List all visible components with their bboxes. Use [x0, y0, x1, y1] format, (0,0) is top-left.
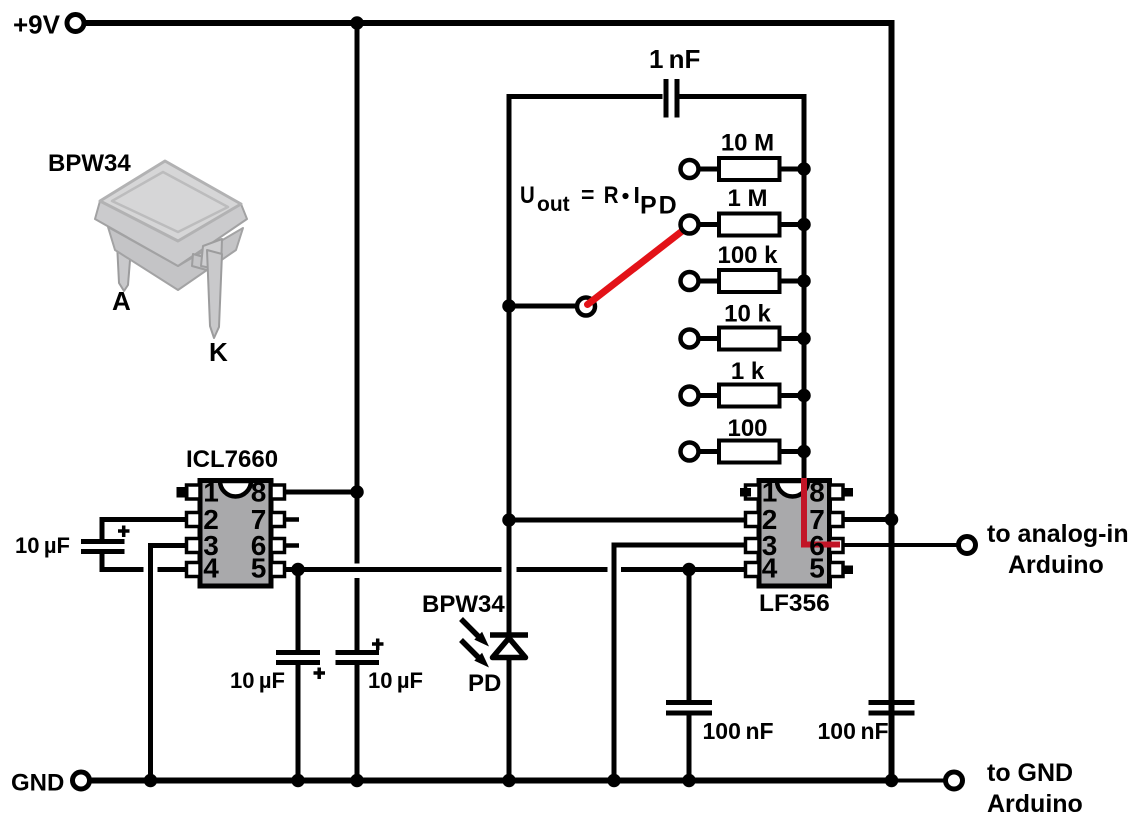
svg-text:K: K — [209, 337, 228, 367]
pin stubs right ICL7660 (8,7,6,5) — [271, 485, 285, 577]
svg-text:1: 1 — [762, 477, 778, 508]
wire: ICL7660 pin2 left then down to 10uF+ plate — [102, 520, 187, 540]
photodiode PD BPW34: cathode bar — [490, 632, 528, 638]
node: GND/100nF #2 and right rail — [885, 774, 899, 788]
wire: ICL7660 pin8 to +9V drop rail — [284, 490, 357, 495]
pin stubs right LF356 (8,7,6,5) — [830, 485, 844, 577]
capacitor 1nF plates — [664, 79, 669, 118]
svg-text:1 k: 1 k — [731, 358, 765, 385]
node: GND/cap1 — [291, 774, 305, 788]
wire: LF356 pin7 to +9V rail — [842, 517, 892, 522]
capacitor 10uF cap1 plates — [276, 650, 320, 655]
wire: pin5 run to LF356 pin4 — [621, 567, 746, 572]
capacitor 100nF #2 plates — [869, 700, 915, 705]
pin 5 NC nub LF356 — [842, 566, 853, 575]
node: rail/10M — [797, 162, 811, 176]
photodiode light arrow 1 — [461, 619, 489, 647]
wire: +9V drop rail to ICL7660 pin8 (upper part, hops over pin5 wire) — [355, 23, 360, 564]
package top face inner ridge — [112, 172, 228, 232]
wire: LF356 pin6 to analog-in terminal — [842, 543, 959, 547]
wire: drop rail resumes below hop, to 10uF cap2 top plate — [355, 578, 360, 651]
svg-text:A: A — [112, 286, 131, 316]
package leg K — [207, 250, 222, 338]
node: ICL7660 pin8 / drop rail — [350, 485, 364, 499]
photodiode triangle — [493, 638, 526, 658]
node: rail/1k — [797, 389, 811, 403]
node: GND/pin3 wire — [144, 774, 158, 788]
node: pin5 run / 100nF #1 — [682, 563, 696, 577]
notch ICL7660 — [220, 481, 251, 497]
svg-text:8: 8 — [251, 477, 267, 508]
op-amp U1 LF356 body — [740, 477, 853, 587]
terminal to analog-in Arduino — [959, 537, 976, 554]
node: top rail / drop rail — [350, 16, 364, 30]
terminal GND — [73, 772, 90, 789]
wire: ICL7660 pin5 negative supply run (to hop at photodiode line) — [284, 567, 502, 572]
wire: LF356 pin3 left and down to GND — [614, 545, 746, 781]
svg-text:5: 5 — [809, 553, 825, 584]
pin 6 stub wire ICL7660 — [284, 543, 299, 548]
svg-text:U: U — [520, 181, 535, 208]
plus sign of 10uF cap1 — [314, 668, 326, 680]
pin stubs left ICL7660 (1,2,3,4) — [187, 485, 201, 577]
svg-text:10 µF: 10 µF — [15, 533, 70, 558]
svg-text:4: 4 — [203, 553, 219, 584]
svg-text:Arduino: Arduino — [1008, 551, 1104, 579]
package top face — [100, 161, 241, 241]
resistor 1k — [681, 385, 799, 407]
svg-text:to GND: to GND — [987, 759, 1073, 787]
node: rail/100k — [797, 274, 811, 288]
svg-text:1 nF: 1 nF — [649, 44, 700, 74]
node: feedback left / LF356 pin2 — [502, 513, 516, 527]
node: GND/photodiode — [502, 774, 516, 788]
BPW34 package 3D drawing — [95, 161, 247, 338]
svg-text:out: out — [537, 193, 570, 216]
svg-text:1: 1 — [203, 477, 219, 508]
svg-text:GND: GND — [11, 770, 64, 797]
svg-text:+9V: +9V — [13, 10, 61, 40]
node: LF356 pin7 / +9V rail — [885, 513, 899, 527]
pin stubs left LF356 (1,2,3,4) — [746, 485, 760, 577]
wire: +9V top rail — [80, 20, 894, 26]
wire: feedback top left segment to 1nF — [509, 94, 663, 99]
photodiode light arrow 2 — [461, 640, 489, 668]
svg-text:ICL7660: ICL7660 — [186, 446, 278, 473]
svg-text:BPW34: BPW34 — [48, 150, 131, 177]
notch LF356 — [777, 481, 808, 497]
wire: 100nF cap1 lower stem — [687, 715, 692, 781]
node: rail/1M — [797, 218, 811, 232]
svg-text:I: I — [634, 182, 640, 208]
package leg K tab — [201, 239, 222, 270]
package leg A — [117, 243, 131, 291]
plus sign of left 10uF — [118, 526, 130, 538]
svg-text:10 µF: 10 µF — [230, 668, 285, 693]
plus sign of 10uF cap2 — [372, 639, 384, 651]
svg-text:100 nF: 100 nF — [818, 718, 889, 744]
wire: LF356 pin2 to feedback left line — [509, 518, 746, 523]
wire: ICL7660 pin3 left and down to GND — [151, 546, 188, 782]
wire: resistor common rail down to LF356 top — [802, 94, 807, 480]
resistor 100k — [681, 270, 799, 292]
pin 7 stub wire ICL7660 — [284, 517, 299, 522]
wire: right +9V rail (top corner down to GND) — [889, 20, 895, 781]
pin 1 NC nub LF356 — [740, 488, 751, 497]
svg-text:10 µF: 10 µF — [368, 668, 423, 693]
wire: photodiode anode to GND — [507, 657, 512, 781]
capacitor 10uF electrolytic (left, horizontal plates) — [81, 539, 125, 544]
svg-text:PD: PD — [468, 670, 501, 697]
svg-text:100 nF: 100 nF — [703, 718, 774, 744]
node: GND/100nF #1 — [682, 774, 696, 788]
node: GND/cap2 rail — [350, 774, 364, 788]
svg-text:1 M: 1 M — [727, 185, 767, 212]
svg-text:=: = — [581, 182, 594, 208]
op-amp U2 ICL7660 body — [177, 477, 300, 587]
package lower body — [108, 227, 243, 290]
wire: 10uF cap1 bottom to GND — [296, 664, 301, 782]
terminal to GND Arduino — [946, 772, 963, 789]
node: rail/100 — [797, 445, 811, 459]
svg-text:4: 4 — [762, 553, 778, 584]
wire: GND rail extension to Arduino terminal — [892, 779, 948, 783]
svg-text:BPW34: BPW34 — [422, 591, 505, 618]
wire: 10uF left cap bottom plate down and right — [102, 554, 144, 570]
svg-text:100: 100 — [727, 415, 767, 442]
svg-text:Arduino: Arduino — [987, 790, 1083, 818]
wire: feedback left vertical (to photodiode cathode) — [507, 94, 512, 633]
resistor 100 — [681, 441, 799, 463]
label formula Uout = R I_PD — [520, 181, 679, 219]
svg-text:10 M: 10 M — [721, 130, 774, 157]
wire: feedback top right segment from 1nF to corner — [679, 94, 805, 99]
pin numbers ICL7660 — [203, 477, 266, 584]
svg-text:8: 8 — [809, 477, 825, 508]
resistor 10M — [681, 158, 799, 180]
pin 1 NC nub ICL7660 — [177, 487, 189, 498]
package flange — [95, 201, 247, 266]
pin 8 NC nub LF356 — [842, 488, 853, 497]
CAPACITORS — [81, 79, 915, 713]
resistor 1M — [699, 214, 799, 236]
wire: 10uF cap2 bottom plate to GND — [355, 664, 360, 782]
svg-text:100 k: 100 k — [717, 242, 778, 269]
node: feedback left / selector — [502, 299, 516, 313]
wire: 100nF cap1 upper stem — [687, 570, 692, 701]
pin numbers LF356 — [762, 477, 825, 584]
wire: pin5 run between photodiode hop and LF pin3 hop — [517, 567, 608, 572]
svg-text:R: R — [604, 181, 619, 208]
capacitor 100nF #1 plates — [666, 700, 712, 705]
wire red: resistor rail to pin6 over LF356 — [804, 478, 840, 545]
svg-text:PD: PD — [640, 192, 679, 220]
terminal +9V — [67, 15, 84, 32]
package leg K step — [192, 254, 211, 271]
svg-text:LF356: LF356 — [759, 590, 830, 617]
wire: GND bottom rail — [88, 778, 892, 784]
wire: resumes after hop to ICL7660 pin4 — [158, 567, 188, 572]
selector red wire to 1M — [588, 230, 684, 305]
selector target circle 1M — [681, 216, 699, 234]
selector pivot circle — [577, 298, 595, 316]
svg-text:10 k: 10 k — [724, 301, 771, 328]
node: rail/10k — [797, 332, 811, 346]
node: ICL7660 pin5 / cap1 — [291, 563, 305, 577]
resistor 10k — [681, 328, 799, 350]
svg-text:to analog-in: to analog-in — [987, 520, 1129, 548]
svg-text:5: 5 — [251, 553, 267, 584]
wire: junction at pin5 down to 10uF cap1 — [296, 570, 301, 651]
capacitor 10uF cap2 plates — [336, 650, 380, 655]
node: GND/LF pin3 — [607, 774, 621, 788]
wire: selector pivot wire — [509, 304, 578, 309]
